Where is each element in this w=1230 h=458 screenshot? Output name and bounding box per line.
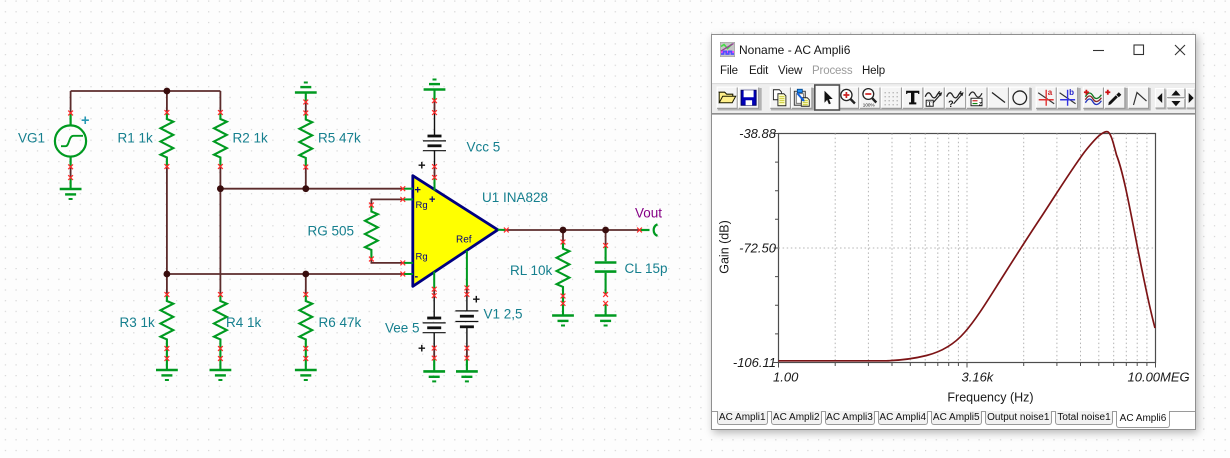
svg-text:z: z xyxy=(979,100,982,107)
menu bar xyxy=(720,65,738,77)
icon: query tool xyxy=(947,91,964,109)
wire R5 to ground gap xyxy=(305,102,307,113)
svg-text:RL 10k: RL 10k xyxy=(510,263,553,278)
axis tick marks xyxy=(774,134,1156,368)
node bottom rail / R6 xyxy=(302,271,309,278)
resistor R3 xyxy=(161,295,174,349)
svg-text:R5 47k: R5 47k xyxy=(318,131,361,146)
icon: cursor b xyxy=(1060,88,1076,106)
capacitor CL xyxy=(595,246,617,295)
window title xyxy=(739,43,850,57)
wire mid rail to +in xyxy=(220,188,402,190)
resistor R2 xyxy=(214,113,227,167)
TINA diagram window xyxy=(711,34,1196,430)
wire R1 top xyxy=(166,91,168,113)
title bar icon xyxy=(720,42,735,57)
node output / CL xyxy=(602,227,609,234)
icon: cursor a xyxy=(1038,88,1054,106)
dashed log gridlines xyxy=(779,134,1156,363)
svg-text:Vee 5: Vee 5 xyxy=(385,321,420,336)
svg-text:+: + xyxy=(415,185,421,197)
ground below VG1 xyxy=(70,178,72,188)
icon: curves xyxy=(1084,90,1102,105)
resistor R1 xyxy=(161,113,174,167)
node output / RL xyxy=(560,227,567,234)
svg-text:Rg: Rg xyxy=(416,252,428,263)
svg-text:R1 1k: R1 1k xyxy=(118,131,154,146)
wire Vcc ground gap xyxy=(434,101,436,113)
icon: zoom out 100% xyxy=(863,89,877,108)
wire R4 from mid rail down across bottom rail xyxy=(219,189,221,295)
gain curve xyxy=(779,132,1156,361)
svg-text:b: b xyxy=(1069,88,1074,97)
x axis labels xyxy=(773,370,1190,385)
wire RG lower corner to Rg pin xyxy=(371,259,402,263)
node bottom rail / R1-R3 xyxy=(164,271,171,278)
nav spinner up/down xyxy=(1167,88,1186,109)
ground below CL xyxy=(595,316,617,326)
wire top rail VG1 to R2 xyxy=(71,90,221,92)
svg-text:CL 15p: CL 15p xyxy=(625,261,668,276)
resistor R5 xyxy=(299,113,312,167)
ground above Vcc battery xyxy=(433,90,435,101)
icon: legend xyxy=(969,92,982,107)
wire R3 top xyxy=(166,274,168,295)
svg-text:Vout: Vout xyxy=(635,206,662,221)
Vout terminal xyxy=(640,224,658,236)
ground below R6 xyxy=(295,370,317,380)
icon: open file xyxy=(719,92,736,103)
resistor R4 xyxy=(214,295,227,349)
icon: scale tool xyxy=(925,91,942,107)
svg-text:VG1: VG1 xyxy=(18,131,45,146)
button group shadows xyxy=(718,88,1197,111)
svg-text:U1 INA828: U1 INA828 xyxy=(482,190,548,205)
wire R5 bottom to mid rail xyxy=(305,167,307,189)
bottom tab bar xyxy=(712,411,1195,430)
svg-text:a: a xyxy=(1048,88,1053,97)
icon: line xyxy=(992,93,1005,103)
wire R1 bottom to rail xyxy=(166,167,168,275)
svg-text:R6 47k: R6 47k xyxy=(319,315,362,330)
node mid rail / R5 xyxy=(302,185,309,192)
wire V1 battery to ground xyxy=(466,348,468,358)
wire bottom rail to -in xyxy=(167,273,403,275)
svg-text:-38.88: -38.88 xyxy=(739,126,777,141)
svg-text:Ref: Ref xyxy=(456,235,472,246)
wire VG1 top stub xyxy=(70,91,72,113)
wire VG1 lower gap xyxy=(70,167,72,178)
resistor R6 xyxy=(299,295,312,349)
nav button right xyxy=(1186,88,1196,109)
node mid rail / R2-R4 xyxy=(217,185,224,192)
diagram frame xyxy=(779,134,1156,363)
svg-text:+: + xyxy=(418,158,426,173)
wire Vee battery to ground xyxy=(433,348,435,358)
icon: paste xyxy=(794,89,809,106)
nav button left xyxy=(1155,88,1165,109)
svg-text:100%: 100% xyxy=(863,103,875,108)
wire R2 top xyxy=(219,91,221,113)
resistor RG xyxy=(365,205,378,259)
wire V- pin to Vee battery xyxy=(433,289,435,296)
V1 battery xyxy=(455,292,480,349)
svg-text:+: + xyxy=(429,194,435,206)
icon: segment xyxy=(1134,93,1147,106)
svg-text:-: - xyxy=(415,271,419,283)
wire Ref pin to V1 battery xyxy=(466,288,468,295)
svg-text:Rg: Rg xyxy=(416,200,428,211)
svg-text:1.00: 1.00 xyxy=(773,370,799,385)
svg-text:R3 1k: R3 1k xyxy=(120,315,156,330)
toolbar xyxy=(712,83,1195,115)
icon: circle xyxy=(1013,91,1027,105)
icon: zoom in xyxy=(841,89,855,103)
svg-text:?: ? xyxy=(948,99,954,109)
resistor RL xyxy=(557,242,570,296)
svg-text:-106.11: -106.11 xyxy=(733,355,776,370)
icon: copy xyxy=(773,90,786,106)
voltage generator VG1 xyxy=(55,113,86,167)
wire R6 top xyxy=(305,274,307,295)
wire CL junction stub xyxy=(605,230,607,246)
wire RG upper corner to Rg pin xyxy=(371,199,402,205)
window control buttons xyxy=(1090,44,1186,56)
icon: pointer xyxy=(825,91,833,105)
svg-text:Gain (dB): Gain (dB) xyxy=(718,220,732,274)
node junction dots xyxy=(164,88,609,278)
ground below R4 xyxy=(210,370,232,380)
toolbar button faces xyxy=(717,87,1150,110)
svg-text:10.00MEG: 10.00MEG xyxy=(1128,370,1190,385)
ground below V1 battery xyxy=(466,358,468,370)
svg-text:+: + xyxy=(418,341,426,356)
icon: save xyxy=(741,90,756,105)
pin x marks xyxy=(68,98,642,361)
svg-text:Frequency (Hz): Frequency (Hz) xyxy=(947,391,1033,405)
wire Vcc battery to V+ pin xyxy=(434,167,436,178)
svg-text:R4 1k: R4 1k xyxy=(226,315,262,330)
icon: dropper xyxy=(1105,90,1121,106)
wire R2 bottom to mid rail xyxy=(219,167,221,189)
svg-text:T: T xyxy=(928,102,932,108)
ground below Vee battery xyxy=(433,358,435,370)
wire output rail xyxy=(506,229,639,231)
ground below RL xyxy=(552,316,574,326)
svg-text:V1 2,5: V1 2,5 xyxy=(484,307,523,322)
svg-text:+: + xyxy=(473,292,481,307)
ground above R5 xyxy=(305,93,307,102)
svg-text:R2 1k: R2 1k xyxy=(233,131,269,146)
svg-text:3.16k: 3.16k xyxy=(962,370,995,385)
svg-text:-72.50: -72.50 xyxy=(739,241,777,256)
selected pointer-tool button xyxy=(815,85,840,110)
svg-text:Vcc 5: Vcc 5 xyxy=(467,140,501,155)
ground below R3 xyxy=(156,370,178,380)
icon: text T xyxy=(906,91,919,105)
op-amp input pin stubs xyxy=(403,177,507,289)
svg-text:+: + xyxy=(81,113,89,129)
plot area xyxy=(712,115,1195,411)
wire RL junction stub xyxy=(562,230,564,242)
op-amp U1 INA828 xyxy=(403,176,507,290)
Vcc battery xyxy=(418,113,446,173)
svg-text:RG 505: RG 505 xyxy=(308,224,355,239)
node top rail / R1 xyxy=(164,88,171,95)
icon: grid (disabled) xyxy=(885,92,898,105)
Vee battery xyxy=(418,296,446,356)
y axis labels xyxy=(733,126,777,370)
